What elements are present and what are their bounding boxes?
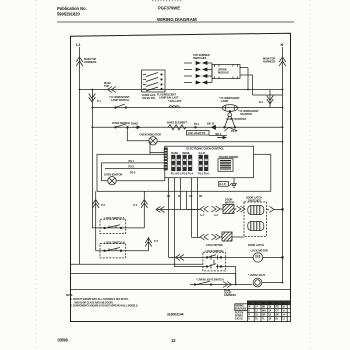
- label under burner box: [142, 93, 156, 100]
- junction split: [224, 127, 237, 131]
- svg-text:P1-1 P1-2: P1-1 P1-2: [171, 172, 182, 175]
- svg-text:OR: OR: [189, 196, 193, 198]
- row door lock motor y209: [156, 206, 200, 212]
- module pin ticks: [215, 65, 238, 79]
- svg-text:HARNESS: HARNESS: [224, 294, 236, 297]
- svg-text:LOCK MOTOR: LOCK MOTOR: [206, 244, 223, 247]
- spark module box: [212, 65, 240, 79]
- wire drops from eoc: [169, 178, 198, 267]
- svg-text:WH: WH: [262, 303, 266, 305]
- switch fluorescent lamp: [115, 107, 117, 109]
- connector chevron P-2 left: [92, 191, 99, 250]
- perforation dots left: [35, 0, 37, 350]
- svg-text:LR: LR: [255, 303, 258, 305]
- svg-text:BROIL: BROIL: [183, 152, 191, 155]
- wire P1 drop: [91, 90, 93, 228]
- connector chevron L1: [76, 57, 83, 66]
- chevron main door: [223, 282, 232, 288]
- wire bus1: [80, 89, 283, 91]
- connector chevron P-2 right: [141, 191, 148, 228]
- wire arrows to module: [207, 63, 212, 83]
- connector chevron P-3: [145, 237, 152, 251]
- svg-text:WH: WH: [262, 311, 266, 313]
- relay group bake: [171, 152, 182, 175]
- svg-text:N: N: [281, 43, 284, 47]
- label ballast: [157, 93, 182, 104]
- svg-text:* OVEN LIGHT: * OVEN LIGHT: [248, 273, 265, 277]
- svg-text:SWITCHES: SWITCHES: [193, 56, 207, 60]
- svg-text:P1-3 P1-4: P1-3 P1-4: [182, 172, 193, 175]
- schematic bottom rule: [70, 289, 291, 291]
- wire eoc feed stubs: [150, 141, 165, 157]
- resistor zigzag: [168, 125, 186, 130]
- svg-text:* BALLAST: * BALLAST: [168, 99, 182, 103]
- svg-text:LAMP SWITCH: LAMP SWITCH: [111, 98, 129, 102]
- svg-text:BK-10: BK-10: [207, 122, 215, 126]
- svg-text:STARTER: STARTER: [240, 112, 252, 116]
- wire lock motor row y257.4: [169, 256, 254, 258]
- svg-text:GY: GY: [276, 311, 280, 313]
- svg-text:OVEN INDICATOR: OVEN INDICATOR: [140, 132, 162, 136]
- svg-text:D.L.B.: D.L.B.: [199, 152, 206, 155]
- svg-text:L1: L1: [76, 43, 80, 47]
- arrow pair row4: [184, 81, 207, 84]
- relay group broil: [182, 152, 193, 175]
- connector chevron on bus1: [108, 87, 117, 93]
- svg-text:1. CIRCUIT SHOWN WITH ALL CONT: 1. CIRCUIT SHOWN WITH ALL CONTROLS OFF I…: [71, 298, 129, 301]
- ignitor symbol: [108, 177, 116, 185]
- lamp oven indicator: [149, 137, 157, 145]
- chevron right exit: [267, 206, 283, 212]
- svg-text:WIRING DIAGRAM: WIRING DIAGRAM: [157, 17, 197, 22]
- svg-text:RD: RD: [199, 196, 203, 198]
- svg-text:WIRING: WIRING: [236, 306, 245, 308]
- svg-text:BK: BK: [167, 196, 171, 198]
- wire bus3: [92, 126, 283, 128]
- diode mark: [212, 125, 216, 129]
- wire bus2: [92, 107, 283, 109]
- svg-text:VALVE SW.: VALVE SW.: [142, 96, 156, 100]
- svg-text:HARNESS: HARNESS: [84, 60, 97, 64]
- svg-text:NOTE:: NOTE:: [66, 295, 73, 297]
- arrow pair row1: [184, 62, 207, 65]
- starter legs: [228, 113, 232, 117]
- title block table: [235, 301, 291, 322]
- svg-text:03/96: 03/96: [58, 338, 69, 343]
- label top burner switches: [193, 53, 210, 60]
- panel outer box: [97, 154, 271, 191]
- svg-text:LOCK MOTOR: LOCK MOTOR: [251, 248, 268, 252]
- svg-text:OVEN SWITCH: OVEN SWITCH: [112, 121, 130, 125]
- wire N bus vertical: [282, 47, 284, 283]
- svg-text:N-1: N-1: [259, 100, 264, 104]
- svg-text:BK-2: BK-2: [216, 132, 222, 136]
- notes: [66, 295, 138, 307]
- svg-text:P-2: P-2: [134, 203, 138, 207]
- wire color labels under panel: [167, 196, 203, 198]
- svg-text:BAKE: BAKE: [171, 152, 178, 155]
- coil ballast: [169, 106, 179, 108]
- chevrons right of motor: [234, 206, 245, 212]
- connector chevron N-1: [269, 90, 271, 108]
- svg-text:E-1 P: E-1 P: [220, 182, 227, 186]
- oval latch 2: [248, 222, 264, 231]
- connector chevron P1: [89, 94, 96, 103]
- svg-text:HARNESS: HARNESS: [263, 60, 276, 64]
- svg-text:PGF379: PGF379: [235, 312, 244, 314]
- svg-text:12: 12: [171, 338, 176, 343]
- svg-text:AND DOOR GLASS AND UNLOCKED.: AND DOOR GLASS AND UNLOCKED.: [74, 301, 114, 304]
- svg-text:318003144: 318003144: [167, 313, 184, 317]
- svg-text:* OVEN LIGHT SWITCH: * OVEN LIGHT SWITCH: [196, 278, 224, 282]
- labels under row: [200, 214, 219, 217]
- svg-text:BAKE: BAKE: [131, 122, 138, 126]
- wire bus4: [157, 141, 282, 143]
- svg-text:LAMP: LAMP: [221, 99, 228, 103]
- svg-text:LAMP STARTER: LAMP STARTER: [227, 117, 247, 121]
- wire ignitor feeds: [101, 163, 163, 181]
- svg-text:OVEN IGNITOR: OVEN IGNITOR: [104, 173, 122, 177]
- wire y270: [174, 266, 203, 268]
- svg-text:PGF379WE: PGF379WE: [158, 6, 180, 11]
- header rule: [57, 21, 294, 23]
- svg-text:G: G: [248, 318, 250, 320]
- lamp fluorescent oval: [222, 105, 238, 112]
- relay group dlb: [198, 152, 209, 175]
- svg-text:LAMP BALLAST: LAMP BALLAST: [159, 96, 179, 100]
- wire module to right drop: [240, 68, 283, 96]
- svg-text:OR: OR: [262, 314, 266, 316]
- switch blades in burner box: [143, 73, 158, 92]
- arrow pair row2: [184, 68, 207, 71]
- bottom bus 2: [71, 274, 236, 285]
- label E-1 GND: [219, 182, 229, 187]
- box lof light label: [187, 131, 210, 136]
- svg-text:BR: BR: [276, 314, 280, 316]
- dashed door latch box: [246, 197, 262, 203]
- svg-text:RD: RD: [275, 303, 279, 305]
- ground symbol: [230, 178, 238, 187]
- wire indicator drop: [127, 127, 148, 141]
- svg-text:ELECTRONIC OVEN CONTROL: ELECTRONIC OVEN CONTROL: [187, 146, 225, 150]
- svg-text:LOF LIGHT TO: LOF LIGHT TO: [188, 131, 205, 135]
- label fluorescent lamp switch: [109, 95, 130, 102]
- svg-text:Publication No.: Publication No.: [57, 6, 87, 11]
- svg-text:RD: RD: [276, 307, 280, 309]
- svg-text:BAKE ELEMENT: BAKE ELEMENT: [167, 120, 187, 124]
- svg-text:MOTOR: MOTOR: [225, 201, 234, 204]
- label fluorescent lamp: [219, 96, 240, 103]
- svg-text:5995291820: 5995291820: [57, 12, 81, 17]
- svg-text:P-1: P-1: [97, 99, 101, 103]
- top burner switch box: [142, 70, 166, 92]
- label fluorescent starter: [238, 109, 259, 116]
- label main door harness: [224, 289, 236, 297]
- arrow BK-2: [217, 136, 226, 138]
- switch oven: [115, 127, 117, 129]
- electronic oven control box: [165, 146, 254, 178]
- label main top harness right: [263, 57, 276, 64]
- bottom bus 1: [71, 263, 203, 265]
- motor lock: [253, 253, 262, 262]
- svg-text:GAS 03: GAS 03: [235, 317, 244, 320]
- oval latch 1: [248, 206, 264, 215]
- hatched box door motor: [223, 205, 234, 214]
- svg-text:GY: GY: [282, 303, 286, 305]
- switch door lock: [190, 284, 252, 286]
- svg-text:P1-5 P1-6: P1-5 P1-6: [198, 172, 209, 175]
- svg-text:P-3: P-3: [154, 239, 158, 243]
- svg-text:P2-3: P2-3: [231, 129, 237, 133]
- connector strip pins: [164, 148, 168, 171]
- perforation dots right: [309, 0, 311, 350]
- wire L1 bus vertical: [79, 47, 81, 264]
- svg-text:BK: BK: [262, 307, 266, 309]
- row lock motor drive y237: [192, 236, 201, 238]
- svg-text:MODULE: MODULE: [218, 71, 229, 75]
- svg-text:A-1: A-1: [200, 214, 205, 217]
- diagram border: [71, 33, 291, 321]
- svg-text:TOP: TOP: [104, 84, 109, 88]
- label top harness small: [104, 81, 111, 88]
- label P-4: [225, 199, 234, 205]
- staple marks top: [152, 0, 182, 2]
- svg-text:P2-1: P2-1: [194, 122, 200, 126]
- connector chevron N: [279, 57, 286, 66]
- label BK-2: [209, 135, 227, 137]
- svg-text:P3-3: P3-3: [130, 171, 136, 175]
- arrow pair row3: [184, 75, 207, 78]
- lamp oven light: [253, 278, 262, 287]
- svg-text:SERIES: SERIES: [235, 315, 244, 317]
- header publication text: [57, 6, 180, 17]
- svg-text:BK: BK: [269, 303, 273, 305]
- svg-text:DIAGRAM: DIAGRAM: [236, 308, 247, 311]
- label main top harness left: [84, 57, 97, 64]
- svg-text:DOOR LATCH: DOOR LATCH: [248, 244, 264, 247]
- svg-text:CO: CO: [248, 303, 252, 305]
- svg-text:P3-2: P3-2: [129, 165, 135, 169]
- hatched box 2: [222, 232, 232, 241]
- svg-text:A-2: A-2: [214, 214, 219, 217]
- svg-text:2. COMPONENTS SHOWN IS DO NOT: 2. COMPONENTS SHOWN IS DO NOT APPEAR IN …: [71, 305, 139, 308]
- arrow bake: [132, 126, 140, 129]
- svg-text:P3-1: P3-1: [129, 159, 135, 163]
- svg-text:P-2: P-2: [101, 203, 105, 207]
